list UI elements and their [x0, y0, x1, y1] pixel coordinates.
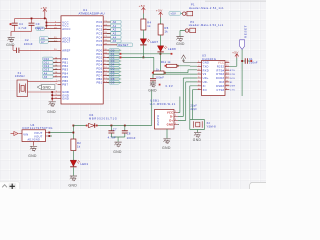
junction dots VCC: [44, 18, 47, 27]
svg-text:R232: R232: [217, 64, 225, 68]
+5V power flag (R6 column): [156, 9, 163, 18]
ground (U1 bottom earth): [47, 102, 56, 114]
svg-text:GND: GND: [43, 86, 52, 90]
svg-text:100nF: 100nF: [249, 61, 258, 65]
node D0-D10 net labels: [107, 48, 122, 84]
+5V power flag (top left): [43, 9, 47, 14]
wire crystal to U1: [28, 81, 58, 92]
svg-text:GND: GND: [193, 138, 202, 142]
svg-text:PB7: PB7: [62, 83, 68, 87]
svg-text:+5V: +5V: [41, 6, 48, 10]
U3 left pin names: [203, 61, 210, 92]
svg-text:1k: 1k: [156, 68, 160, 71]
svg-text:GND: GND: [148, 89, 157, 93]
svg-text:PC4: PC4: [96, 35, 102, 39]
svg-text:A5: A5: [113, 39, 117, 43]
svg-text:RESET: RESET: [118, 43, 128, 47]
connector P1 header: [181, 2, 224, 15]
svg-text:R4: R4: [147, 21, 151, 25]
wire P3 to ground: [180, 31, 185, 37]
wire net row (D1): [121, 53, 171, 55]
svg-text:R2: R2: [77, 141, 81, 145]
svg-text:PD5: PD5: [96, 66, 102, 70]
svg-text:A0: A0: [113, 20, 117, 24]
wire net row (D2) to R12: [121, 57, 153, 71]
svg-text:VCC: VCC: [218, 61, 224, 65]
svg-text:PC1: PC1: [96, 24, 102, 28]
svg-text:GND: GND: [62, 93, 69, 97]
svg-text:VIN: VIN: [23, 132, 28, 136]
svg-text:A1: A1: [113, 24, 117, 28]
node A6 A7 net labels (left): [36, 27, 58, 44]
svg-text:GND: GND: [203, 61, 210, 65]
svg-text:D6: D6: [111, 70, 115, 74]
IC U1 ATMEGA328P-AU (MCU rectangle): [61, 8, 105, 104]
svg-text:A7: A7: [41, 40, 45, 44]
svg-text:A5: A5: [44, 75, 48, 79]
LED LED1: [70, 160, 88, 167]
wire R2 to LED1: [72, 151, 74, 161]
svg-text:C7: C7: [113, 128, 117, 132]
svg-text:PB5: PB5: [62, 75, 68, 79]
svg-text:MBR0520SLT1G: MBR0520SLT1G: [89, 117, 118, 121]
svg-text:D-: D-: [170, 115, 173, 119]
svg-text:D2: D2: [111, 56, 115, 60]
wire +5V rail vertical (to USB area): [151, 90, 153, 126]
svg-text:D11: D11: [44, 61, 50, 65]
svg-text:D9: D9: [111, 81, 115, 85]
svg-text:+5V: +5V: [139, 4, 146, 8]
capacitor C4: [10, 18, 27, 31]
svg-text:PB1: PB1: [62, 61, 68, 65]
wire bundle U3 to USB/crystal: [178, 78, 197, 117]
+5V power flag (U3): [232, 50, 239, 58]
UI corner: zoom buttons bottom-left: [0, 182, 20, 192]
svg-text:DCD: DCD: [230, 78, 236, 80]
svg-text:UD-: UD-: [203, 80, 208, 84]
svg-text:PB2: PB2: [62, 64, 68, 68]
svg-text:RESET: RESET: [244, 25, 248, 38]
svg-text:PD3: PD3: [96, 59, 102, 63]
U1 right pin stubs: [103, 22, 107, 83]
svg-text:RTS: RTS: [230, 70, 235, 72]
svg-text:GND: GND: [6, 43, 15, 47]
svg-text:PD7: PD7: [96, 74, 102, 78]
wire LED7 down: [142, 45, 144, 57]
ground (V3 cap earth): [148, 83, 157, 93]
junction nodes on 5V rail: [111, 125, 126, 127]
svg-text:+5V: +5V: [156, 9, 163, 13]
svg-text:PC0: PC0: [96, 20, 102, 24]
svg-text:XO: XO: [203, 88, 207, 92]
svg-text:R11 1k: R11 1k: [161, 60, 171, 64]
svg-text:D7: D7: [111, 74, 115, 78]
wire USB GND down: [167, 125, 179, 139]
svg-text:PB4: PB4: [62, 71, 68, 75]
svg-text:PC2: PC2: [96, 28, 102, 32]
svg-text:GND: GND: [162, 146, 171, 150]
resistor R6: [158, 18, 169, 36]
svg-text:GND: GND: [69, 184, 78, 188]
capacitor labels (X2 load caps): [191, 105, 198, 111]
wire +5V to U3 VCC: [229, 58, 237, 66]
capacitor C6 (V3 node): [150, 76, 164, 86]
svg-text:VCC: VCC: [167, 111, 174, 115]
svg-text:D12: D12: [44, 64, 50, 68]
svg-text:GND: GND: [167, 123, 174, 127]
svg-text:X2: X2: [207, 121, 211, 125]
svg-text:100nF: 100nF: [35, 26, 44, 30]
svg-text:AREF: AREF: [62, 48, 70, 52]
ground (LED1 earth): [69, 176, 78, 188]
resistor R2: [71, 139, 81, 151]
svg-text:D5: D5: [111, 66, 115, 70]
svg-text:ADC7: ADC7: [62, 40, 71, 44]
svg-text:V3: V3: [203, 72, 207, 76]
svg-text:A4: A4: [113, 35, 117, 39]
svg-text:DSR: DSR: [230, 86, 236, 88]
svg-text:R6: R6: [165, 26, 169, 30]
resistor R4: [141, 14, 152, 31]
svg-text:PB0: PB0: [62, 57, 68, 61]
svg-text:1k: 1k: [165, 30, 169, 34]
svg-text:DTR: DTR: [230, 74, 235, 76]
svg-text:X1: X1: [18, 71, 22, 75]
U3 right pin names: [216, 61, 224, 92]
node RESET net label: [107, 43, 133, 47]
svg-text:Header-Male-2.54_1x1: Header-Male-2.54_1x1: [189, 23, 224, 27]
wire USB VCC up: [178, 97, 180, 113]
svg-text:D4: D4: [111, 63, 115, 67]
wire +5V rail top-left: [15, 14, 58, 29]
svg-text:YSM-8: YSM-8: [207, 124, 217, 128]
svg-text:C8: C8: [127, 131, 131, 135]
connector P3 header: [185, 20, 223, 33]
resistor R11: [161, 60, 179, 68]
svg-text:U-F-M5DD-W-21: U-F-M5DD-W-21: [150, 103, 176, 106]
wire RESET vertical: [241, 49, 243, 96]
wire R12 to U3 TXD: [164, 70, 197, 73]
svg-text:4.7uF: 4.7uF: [108, 135, 116, 139]
svg-text:Header-Male-2.54_1x1: Header-Male-2.54_1x1: [189, 6, 224, 10]
capacitor C1: [241, 57, 258, 65]
svg-text:ADJ/GND: ADJ/GND: [28, 139, 40, 142]
svg-text:DTR#: DTR#: [216, 72, 224, 76]
node VIN arrow flag: [11, 131, 19, 135]
svg-text:GND: GND: [47, 110, 56, 114]
U1 left pin stubs: [58, 23, 62, 99]
svg-text:RI: RI: [230, 82, 233, 84]
svg-text:XUNPU: XUNPU: [156, 115, 160, 125]
svg-text:PC3: PC3: [96, 32, 102, 36]
+5V power flag (R4 column): [139, 4, 146, 14]
node right net texts of U3: [230, 70, 236, 92]
U1 right pin names: [96, 20, 102, 85]
crystal X1: [15, 71, 28, 97]
diode D4: [73, 113, 151, 128]
svg-text:A4: A4: [44, 71, 48, 75]
U3 pin stubs: [197, 62, 229, 89]
U1 right pin numbers: [104, 21, 107, 84]
svg-text:TXD: TXD: [203, 64, 209, 68]
ground GND flag (crystal): [37, 85, 55, 90]
U1 left pin numbers: [54, 21, 58, 99]
svg-text:PD4: PD4: [96, 63, 102, 67]
connector USB1 body: [150, 99, 176, 130]
svg-text:100nF: 100nF: [127, 136, 136, 140]
svg-text:D0: D0: [111, 48, 115, 52]
wire stubs to net labels (green): [45, 22, 122, 83]
svg-text:1k: 1k: [147, 24, 151, 28]
svg-text:3.3V: 3.3V: [165, 84, 173, 88]
wire LED1 to ground: [72, 167, 74, 175]
svg-text:PD1: PD1: [96, 52, 102, 56]
svg-text:AVCC: AVCC: [62, 27, 70, 31]
capacitor C9: [11, 18, 44, 37]
svg-text:GND: GND: [113, 150, 122, 154]
regulator U4: [19, 123, 54, 146]
ground (C7/C8 earth): [113, 142, 122, 154]
svg-text:PB6: PB6: [62, 79, 68, 83]
ground (USB earth): [162, 139, 171, 150]
svg-text:A3: A3: [113, 32, 117, 36]
svg-text:P3: P3: [190, 20, 194, 24]
svg-text:RTS#: RTS#: [216, 68, 224, 72]
capacitor C7: [108, 126, 125, 140]
svg-text:1k: 1k: [77, 144, 81, 148]
svg-text:GND: GND: [62, 97, 69, 101]
svg-text:PB3: PB3: [62, 68, 68, 72]
U3 pin numbers: [198, 61, 229, 90]
svg-text:CTS#: CTS#: [216, 88, 224, 92]
canvas background: [0, 0, 266, 189]
svg-text:100nF: 100nF: [156, 76, 165, 80]
ground (top-left earth): [6, 37, 15, 47]
ground (X2 earth): [193, 133, 202, 143]
svg-text:16MHz: 16MHz: [15, 74, 26, 78]
LED LED8: [157, 35, 176, 52]
svg-text:PC5: PC5: [96, 39, 102, 43]
wire GND bus under U1: [52, 92, 57, 101]
LED LED7: [140, 30, 158, 45]
U1 left pin names: [62, 21, 71, 101]
svg-text:PB1: PB1: [96, 81, 102, 85]
svg-text:DCD#: DCD#: [216, 76, 224, 80]
resistor R12: [152, 71, 166, 74]
svg-text:GND: GND: [28, 154, 37, 158]
crystal X2: [190, 120, 216, 133]
svg-text:100nF: 100nF: [24, 42, 33, 46]
svg-text:PC6: PC6: [96, 43, 102, 47]
svg-text:RI#: RI#: [219, 80, 224, 84]
svg-text:LED7: LED7: [151, 40, 159, 44]
svg-text:PD6: PD6: [96, 70, 102, 74]
svg-text:VOUT: VOUT: [34, 131, 43, 135]
USB1 pin stubs: [174, 113, 178, 125]
svg-text:RXD: RXD: [203, 68, 209, 72]
USB1 pin names: [167, 111, 174, 127]
IC U3 CH340G (USB-serial): [202, 53, 226, 95]
svg-text:GND: GND: [176, 42, 185, 46]
svg-text:D8: D8: [111, 77, 115, 81]
UI corner: panel bottom-right: [250, 182, 272, 194]
wire LED8 down: [159, 52, 161, 71]
svg-text:D1: D1: [111, 52, 115, 56]
ground (P3 earth): [176, 37, 185, 46]
svg-text:CTS: CTS: [230, 90, 235, 92]
svg-text:PB0: PB0: [96, 77, 102, 81]
svg-text:D3: D3: [111, 59, 115, 63]
svg-text:D4: D4: [90, 113, 94, 117]
svg-text:C9: C9: [36, 22, 40, 26]
svg-text:D10: D10: [44, 57, 50, 61]
svg-text:4.7uF: 4.7uF: [18, 26, 26, 30]
svg-text:P1: P1: [191, 2, 195, 6]
svg-text:D13: D13: [44, 68, 50, 72]
svg-text:ATMEGA328P-AU: ATMEGA328P-AU: [79, 11, 105, 15]
wire U3 V3 to cap: [153, 74, 197, 78]
ground flag (U3 GND pin, arrow up): [181, 55, 197, 62]
svg-text:DSR#: DSR#: [216, 84, 224, 88]
svg-text:22pF: 22pF: [191, 108, 198, 111]
svg-text:XI: XI: [203, 84, 206, 88]
svg-text:USB1: USB1: [150, 99, 159, 103]
svg-text:D+: D+: [169, 119, 173, 123]
node D11-D13 net labels (left stack): [43, 57, 58, 79]
svg-text:LED1: LED1: [81, 162, 89, 166]
svg-text:UD+: UD+: [203, 76, 209, 80]
svg-text:PD2: PD2: [96, 56, 102, 60]
wire U4 output to +5V rail: [49, 126, 73, 140]
svg-text:A2: A2: [113, 28, 117, 32]
svg-text:LED8: LED8: [168, 47, 176, 51]
node RESET port (vertical): [240, 25, 248, 49]
svg-text:C4: C4: [19, 22, 23, 26]
capacitor C8: [118, 126, 136, 142]
svg-text:PD0: PD0: [96, 48, 102, 52]
node net label (P1): [169, 12, 181, 16]
wire R11 to U3 RXD: [177, 65, 197, 67]
capacitor C2 (AREF): [13, 38, 58, 53]
ground (U4 earth): [28, 146, 37, 158]
node A0-A5 net labels: [107, 20, 121, 43]
UI top-right toolbar edge line: [205, 0, 266, 2]
svg-text:C2: C2: [25, 38, 29, 42]
svg-text:+5V: +5V: [232, 50, 239, 54]
svg-text:+5V: +5V: [170, 12, 176, 16]
